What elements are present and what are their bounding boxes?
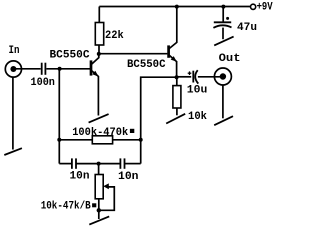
ground Q1 emitter	[89, 114, 109, 123]
node pot bottom	[97, 208, 101, 212]
node collector Q1	[97, 52, 101, 56]
wire cap row right	[125, 163, 141, 165]
transistor Q2 BC550C	[169, 7, 177, 62]
ground 10k	[166, 114, 185, 124]
plus mark C3	[188, 71, 192, 75]
terminal +9V circle	[251, 4, 256, 9]
node Q2 collector on rail	[175, 5, 179, 9]
resistor R3 10k	[173, 86, 181, 108]
svg-text:BC550C: BC550C	[50, 49, 90, 61]
svg-text:In: In	[9, 45, 20, 57]
wire In ground drop	[12, 77, 14, 149]
svg-text:+9V: +9V	[257, 2, 273, 14]
capacitor C6 10n right	[120, 158, 124, 168]
wire C3 to Out	[198, 76, 223, 78]
wire cap row left	[59, 163, 71, 165]
svg-text:10n: 10n	[118, 171, 139, 183]
ground pot	[89, 216, 109, 224]
connector In	[5, 61, 21, 77]
wire 10k bottom	[176, 108, 178, 115]
capacitor C5 10n left	[72, 158, 76, 168]
wire Out ground drop	[222, 85, 224, 118]
node base Q1	[58, 67, 62, 71]
svg-text:22k: 22k	[105, 30, 124, 42]
wire left rail lower	[58, 140, 60, 164]
wire 47u bottom	[222, 28, 224, 40]
node feedback right	[139, 138, 143, 142]
svg-text:10k-47k/B: 10k-47k/B	[41, 200, 91, 212]
svg-text:10n: 10n	[70, 171, 90, 183]
wire top +9V rail	[99, 6, 250, 8]
wire pot ground drop	[98, 210, 100, 219]
wire feedback left rail	[58, 69, 60, 140]
resistor R2 100k-470k	[92, 136, 112, 144]
wire emitter node to feedback right rail	[141, 77, 177, 140]
node Q2 emitter	[175, 75, 179, 79]
plus mark C4	[226, 17, 229, 20]
svg-text:10k: 10k	[188, 111, 207, 123]
wire resistor row left	[59, 139, 92, 141]
wire In to C1	[13, 68, 40, 70]
ground 47u	[214, 37, 233, 46]
wire pot top	[98, 164, 100, 175]
ground In	[4, 148, 22, 155]
wiper arrow P1	[99, 183, 115, 210]
svg-text:100n: 100n	[31, 77, 55, 89]
capacitor C3 10u polarized	[193, 70, 198, 83]
wire pot bottom	[98, 199, 100, 211]
resistor R1 22k	[95, 23, 103, 46]
svg-text:100k-470k: 100k-470k	[72, 127, 128, 139]
capacitor C1 100n	[42, 63, 46, 75]
svg-text:10u: 10u	[187, 84, 208, 96]
wire emitter to 10k	[176, 77, 178, 85]
wire Q1 emitter to ground	[97, 76, 99, 116]
wire cap row middle	[77, 163, 121, 165]
wire 22k top	[98, 7, 100, 23]
wire C1 to Q1 base	[46, 68, 90, 70]
transistor Q1 BC550C	[91, 54, 99, 77]
wire Q2 emitter	[176, 61, 178, 77]
wire 22k bottom	[98, 45, 100, 54]
asterisk square 10k-47k/B	[92, 203, 96, 207]
wire Q1 collector to Q2 base	[99, 53, 168, 55]
node feedback left	[57, 138, 61, 142]
svg-text:47u: 47u	[237, 22, 257, 34]
wire 47u top	[222, 7, 224, 23]
node 47u tap	[221, 5, 225, 9]
svg-text:BC550C: BC550C	[127, 59, 166, 71]
potentiometer P1	[95, 175, 103, 199]
wire resistor row right	[113, 139, 141, 141]
capacitor C4 47u polarized	[213, 22, 231, 28]
ground Out	[214, 116, 233, 125]
wire right rail lower	[140, 140, 142, 164]
wire emitter to C3	[177, 76, 192, 78]
asterisk square 100k-470k	[130, 129, 134, 133]
connector Out	[214, 68, 231, 85]
node pot top	[97, 162, 101, 166]
svg-text:Out: Out	[219, 53, 241, 65]
